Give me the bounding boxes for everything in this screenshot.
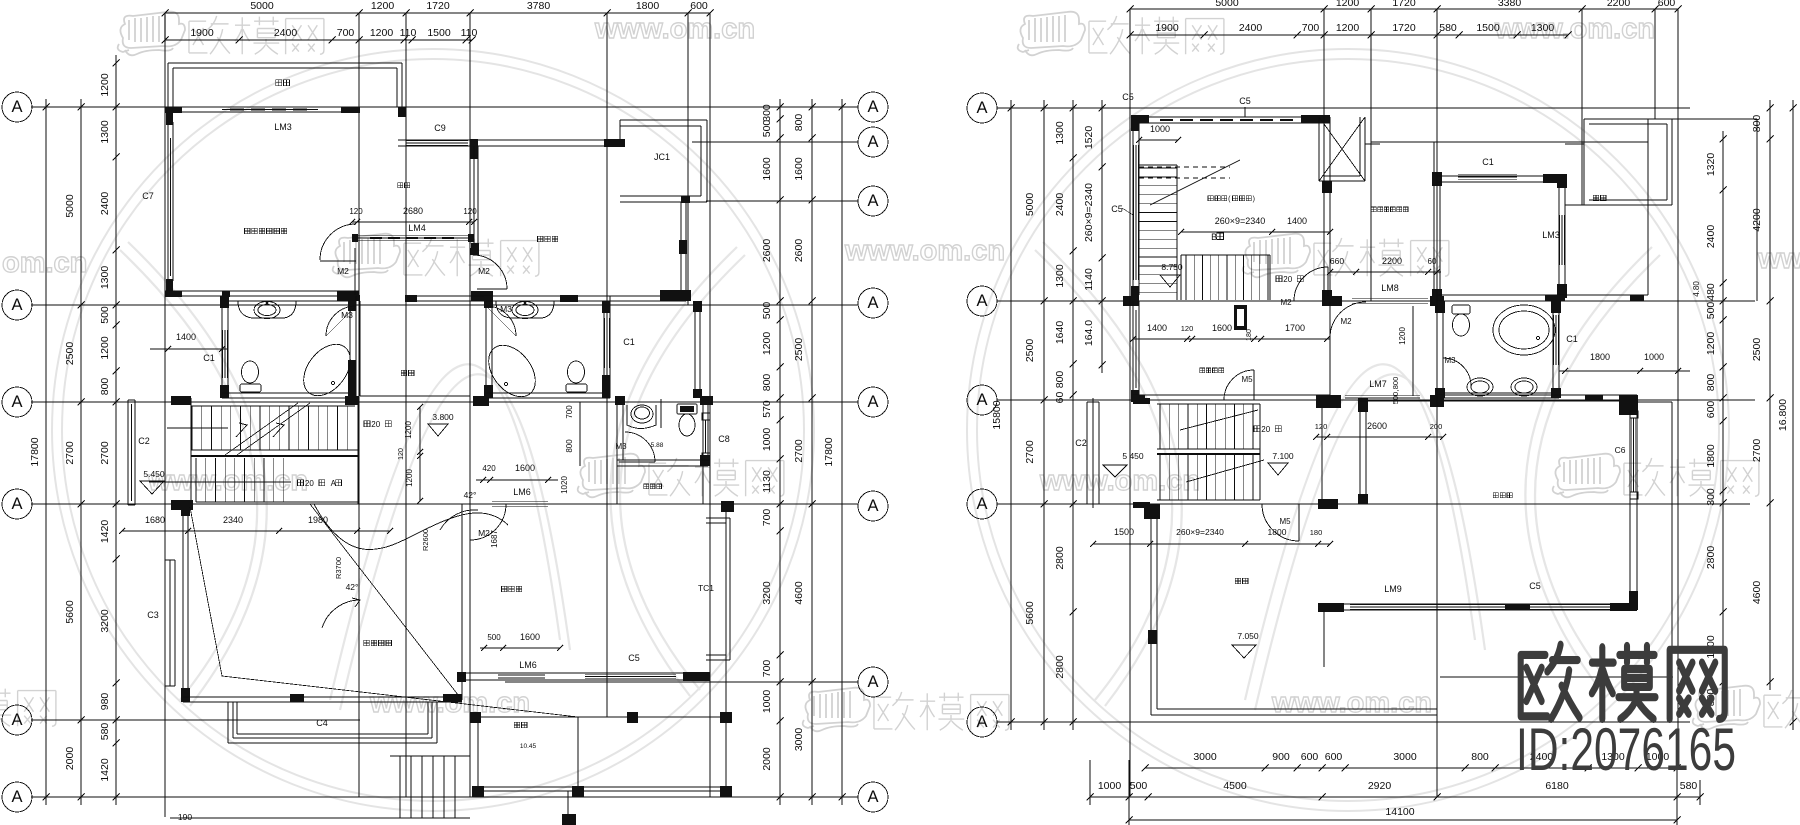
stair cut diagonal — [225, 403, 310, 455]
书房及休闲间 — [1371, 207, 1408, 212]
elevator — [1318, 117, 1320, 181]
giant logo curves left — [120, 242, 745, 710]
mid wall y301 black — [1123, 296, 1139, 306]
svg-text:C8: C8 — [718, 434, 730, 444]
interior line — [461, 504, 463, 700]
right wall + C6 window — [1629, 401, 1631, 610]
svg-text:1300: 1300 — [1054, 264, 1066, 288]
svg-text:800: 800 — [99, 378, 111, 396]
svg-text:2700: 2700 — [64, 441, 76, 465]
svg-text:A: A — [11, 98, 22, 116]
terrace outline right — [1637, 401, 1672, 403]
svg-text:C5: C5 — [1529, 581, 1541, 591]
svg-text:120: 120 — [1181, 324, 1194, 333]
svg-text:900: 900 — [1272, 751, 1290, 763]
svg-text:A: A — [11, 711, 22, 729]
svg-text:1320: 1320 — [1705, 153, 1717, 177]
wc divider — [660, 399, 662, 428]
svg-text:700: 700 — [1302, 22, 1320, 34]
svg-text:500: 500 — [1705, 302, 1717, 320]
porch 阳台 — [514, 722, 527, 727]
svg-text:2600: 2600 — [1367, 421, 1387, 431]
svg-text:3380: 3380 — [1498, 0, 1522, 9]
svg-text:5000: 5000 — [250, 0, 274, 12]
svg-text:180: 180 — [1246, 329, 1253, 341]
svg-text:1420: 1420 — [99, 520, 111, 544]
svg-text:2000: 2000 — [761, 747, 773, 771]
svg-text:1640: 1640 — [1054, 321, 1066, 345]
svg-text:2500: 2500 — [64, 342, 76, 366]
stair room labels — [1208, 196, 1255, 203]
svg-text:A: A — [11, 393, 22, 411]
corridor upper walls — [354, 248, 356, 295]
svg-text:M2: M2 — [1280, 298, 1292, 307]
svg-text:A: A — [976, 292, 987, 310]
svg-text:3200: 3200 — [99, 609, 111, 633]
stairs lower: two flights — [1157, 403, 1260, 405]
svg-text:C5: C5 — [1122, 92, 1134, 102]
svg-text:1200: 1200 — [1398, 327, 1407, 345]
svg-text:5000: 5000 — [1024, 193, 1036, 217]
svg-text:C6: C6 — [1615, 445, 1626, 455]
stair room right wall — [1323, 181, 1325, 301]
svg-text:580: 580 — [99, 723, 111, 741]
kids room bottom wall — [405, 295, 686, 297]
svg-text:600: 600 — [1325, 751, 1343, 763]
svg-text:1130: 1130 — [761, 470, 773, 493]
svg-text:1500: 1500 — [1476, 22, 1500, 34]
svg-text:2340: 2340 — [223, 515, 243, 525]
giant logo curves right — [1035, 242, 1660, 710]
svg-text:1200: 1200 — [761, 332, 773, 356]
svg-text:2700: 2700 — [1024, 440, 1036, 464]
svg-text:1700: 1700 — [1285, 323, 1305, 333]
balcony top 露台 — [167, 63, 169, 107]
svg-text:0: 0 — [376, 420, 381, 429]
left bathroom — [221, 296, 223, 398]
svg-text:2600: 2600 — [761, 239, 773, 263]
top dimension row 1 — [165, 12, 710, 14]
svg-text:5 450: 5 450 — [1122, 451, 1144, 461]
svg-text:700: 700 — [761, 660, 773, 678]
extended outline — [1672, 118, 1757, 120]
svg-text:1200: 1200 — [371, 0, 395, 12]
svg-text:570: 570 — [761, 400, 773, 418]
corridor door M2 left — [320, 224, 356, 260]
svg-text:800: 800 — [565, 439, 574, 453]
svg-text:1687: 1687 — [490, 530, 499, 548]
wc toilet — [677, 404, 697, 414]
svg-text:2800: 2800 — [1705, 546, 1717, 570]
svg-text:2920: 2920 — [1368, 780, 1392, 792]
svg-text:190: 190 — [178, 812, 192, 822]
right chain D — [779, 99, 781, 805]
svg-text:C3: C3 — [147, 610, 159, 620]
svg-text:1500: 1500 — [1114, 527, 1134, 537]
stair B upper flight — [1139, 164, 1177, 166]
bottom wall + LM9 C5 — [1318, 603, 1637, 605]
svg-text:260×9=2340: 260×9=2340 — [1215, 216, 1266, 226]
lower big room 餐厅上空 — [182, 504, 184, 702]
svg-text:1600: 1600 — [793, 157, 805, 181]
svg-text:2400: 2400 — [1705, 225, 1717, 249]
grid rows — [31, 106, 858, 108]
dims below stairs — [1093, 543, 1330, 545]
stair B lower flight — [1180, 255, 1182, 300]
svg-text:1400: 1400 — [176, 332, 196, 342]
svg-text:A: A — [867, 788, 878, 806]
svg-text:M2: M2 — [337, 266, 349, 276]
svg-text:17800: 17800 — [823, 437, 835, 466]
C4 bay window — [227, 702, 229, 743]
svg-text:1020: 1020 — [560, 476, 569, 494]
window LM4 — [357, 235, 468, 237]
rp right chain K — [1792, 100, 1794, 730]
svg-text:A: A — [867, 294, 878, 312]
dim row 1680 2340 1980 — [122, 530, 390, 532]
left chain A — [45, 99, 47, 805]
svg-text:C7: C7 — [142, 191, 154, 201]
svg-text:C1: C1 — [1566, 334, 1578, 344]
svg-text:1800: 1800 — [1268, 527, 1287, 537]
wc door — [625, 432, 655, 462]
svg-text:LM3: LM3 — [1542, 230, 1560, 240]
left bath tub — [294, 335, 360, 404]
svg-text:2400: 2400 — [99, 192, 111, 216]
svg-text:2200: 2200 — [1382, 256, 1402, 266]
left chain C — [115, 55, 117, 805]
svg-text:M2: M2 — [478, 528, 490, 538]
stair arrows — [167, 427, 228, 429]
svg-text:A: A — [976, 713, 987, 731]
bathroom right plan — [1436, 301, 1438, 398]
dim 1000 — [1139, 139, 1178, 141]
svg-text:700: 700 — [761, 509, 773, 527]
svg-text:1400: 1400 — [1287, 216, 1307, 226]
corridor walls — [359, 301, 361, 396]
svg-text:120: 120 — [349, 207, 363, 216]
svg-text:42°: 42° — [464, 490, 477, 500]
tub — [1493, 305, 1555, 355]
svg-text:980: 980 — [99, 693, 111, 711]
svg-text:1520: 1520 — [1083, 126, 1095, 150]
svg-text:A: A — [976, 391, 987, 409]
svg-text:3000: 3000 — [793, 728, 805, 752]
svg-text:2400: 2400 — [274, 27, 298, 39]
svg-text:LM9: LM9 — [1384, 584, 1402, 594]
svg-text:C2: C2 — [138, 436, 150, 446]
sinks — [1467, 378, 1493, 396]
svg-text:1600: 1600 — [1212, 323, 1232, 333]
svg-text:2000: 2000 — [64, 747, 76, 771]
svg-text:2800: 2800 — [1054, 546, 1066, 570]
svg-text:C5: C5 — [1239, 96, 1251, 106]
svg-text:C2: C2 — [1075, 438, 1087, 448]
svg-text:TC1: TC1 — [698, 583, 714, 593]
svg-text:1200: 1200 — [370, 27, 394, 39]
stair room top wall + C5 — [1133, 116, 1330, 118]
svg-text:1900: 1900 — [1155, 22, 1179, 34]
svg-text:700: 700 — [565, 405, 574, 419]
dims 120 2600 200 — [1316, 436, 1443, 438]
C5 bottom window — [458, 672, 710, 674]
svg-text:420: 420 — [482, 464, 496, 473]
svg-text:1800: 1800 — [636, 0, 660, 12]
stair hall bottom wall — [171, 396, 191, 405]
svg-text:600: 600 — [690, 0, 708, 12]
right bath door M3 — [486, 306, 516, 336]
svg-text:500: 500 — [487, 633, 501, 642]
rp right chain I — [1722, 131, 1724, 721]
grid columns — [164, 13, 166, 817]
svg-text:260×9=2340: 260×9=2340 — [1083, 183, 1095, 242]
svg-text:5000: 5000 — [1215, 0, 1239, 9]
svg-text:1720: 1720 — [426, 0, 450, 12]
生活阳台 — [1200, 368, 1224, 373]
bottom wall + C4 bay — [183, 696, 462, 698]
svg-text:1900: 1900 — [190, 27, 214, 39]
dim 500 1600 row — [480, 647, 560, 649]
svg-text:16.800: 16.800 — [1777, 399, 1789, 431]
svg-text:1300: 1300 — [99, 120, 111, 144]
black door jamb — [1234, 305, 1247, 330]
svg-text:2500: 2500 — [793, 338, 805, 362]
svg-text:M2: M2 — [478, 266, 490, 276]
svg-text:60: 60 — [1428, 257, 1437, 266]
svg-text:A: A — [867, 673, 878, 691]
svg-text:A: A — [976, 495, 987, 513]
dims 1800 1000 — [1559, 370, 1690, 372]
svg-text:1200: 1200 — [1705, 332, 1717, 356]
bedroom right wall + LM3 — [1558, 174, 1560, 298]
svg-text:4600: 4600 — [1751, 581, 1763, 605]
svg-text:120: 120 — [1315, 422, 1328, 431]
svg-text:120: 120 — [463, 207, 477, 216]
kids room top wall + C9 — [398, 139, 625, 141]
svg-text:1000: 1000 — [1098, 780, 1122, 792]
stair hall C2 window — [127, 400, 129, 505]
svg-text:M3: M3 — [341, 310, 353, 320]
balcony top right — [1583, 119, 1585, 144]
bedroom top wall + C1 — [1437, 175, 1565, 177]
svg-text:500: 500 — [761, 120, 773, 138]
svg-text:260×9=2340: 260×9=2340 — [1176, 527, 1224, 537]
svg-text:1200: 1200 — [405, 469, 414, 487]
svg-text:M5: M5 — [1279, 517, 1291, 526]
svg-text:2200: 2200 — [1607, 0, 1631, 9]
svg-text:2700: 2700 — [793, 439, 805, 463]
wc sink — [627, 405, 656, 429]
svg-text:2700: 2700 — [99, 441, 111, 465]
svg-text:1600: 1600 — [515, 463, 535, 473]
right chain E — [811, 99, 813, 805]
dim 1400 — [150, 348, 228, 350]
svg-text:500: 500 — [761, 302, 773, 320]
svg-text:15800: 15800 — [991, 400, 1003, 429]
svg-text:2400: 2400 — [1239, 22, 1263, 34]
svg-text:800: 800 — [1705, 374, 1717, 392]
svg-text:10.45: 10.45 — [520, 743, 537, 750]
svg-text:3000: 3000 — [1193, 751, 1217, 763]
left bath sink — [238, 301, 296, 318]
svg-text:1300: 1300 — [99, 266, 111, 290]
svg-text:580: 580 — [1439, 22, 1457, 34]
rp left chain 15800 — [1010, 100, 1012, 730]
svg-text:120: 120 — [398, 448, 405, 460]
svg-text:300: 300 — [1705, 488, 1717, 506]
svg-text:17800: 17800 — [29, 437, 41, 466]
svg-text:LM6: LM6 — [519, 660, 537, 670]
svg-text:1720: 1720 — [1392, 22, 1416, 34]
svg-text:1300: 1300 — [1054, 121, 1066, 145]
wm row4 — [0, 689, 56, 727]
svg-text:4600: 4600 — [793, 581, 805, 605]
svg-text:2700: 2700 — [1751, 439, 1763, 463]
svg-text:A: A — [11, 788, 22, 806]
dims 660 2200 row — [1330, 271, 1441, 273]
svg-text:LM8: LM8 — [1381, 283, 1399, 293]
svg-text:LM7: LM7 — [1369, 379, 1387, 389]
svg-text:1000: 1000 — [761, 690, 773, 714]
svg-text:1200: 1200 — [99, 336, 111, 360]
svg-text:164.0: 164.0 — [1083, 320, 1095, 346]
svg-text:www: www — [1757, 243, 1800, 275]
svg-text:1720: 1720 — [1392, 0, 1416, 9]
svg-text:60: 60 — [1054, 392, 1066, 404]
svg-text:5000: 5000 — [64, 194, 76, 218]
grid circles A right — [858, 92, 888, 122]
stair room left wall + C5 window — [1132, 117, 1134, 301]
left wall lower + window — [1132, 301, 1134, 400]
dim 420 1600 row — [476, 479, 558, 481]
svg-text:C5: C5 — [628, 653, 640, 663]
wall y400 — [1133, 394, 1330, 396]
svg-text:1200: 1200 — [1336, 22, 1360, 34]
right bath sink — [496, 301, 554, 318]
svg-text:C1: C1 — [1482, 157, 1494, 167]
svg-text:4.80: 4.80 — [1692, 281, 1701, 297]
svg-text:200: 200 — [1430, 422, 1443, 431]
svg-text:C9: C9 — [434, 123, 446, 133]
misc long verticals — [1323, 9, 1325, 301]
toilet — [1452, 305, 1470, 314]
top dim row2 — [1130, 34, 1568, 36]
svg-text:1500: 1500 — [427, 27, 451, 39]
svg-text:1200: 1200 — [99, 73, 111, 97]
svg-text:0: 0 — [309, 479, 314, 488]
bottom dim row C — [1129, 819, 1677, 821]
door M3 — [1443, 358, 1471, 386]
main bedroom 主人房 — [1359, 400, 1361, 504]
svg-text:M3: M3 — [615, 442, 627, 451]
svg-text:300: 300 — [761, 104, 773, 122]
svg-text:LM6: LM6 — [513, 487, 531, 497]
wm row3 — [147, 465, 308, 497]
svg-text:600: 600 — [1658, 0, 1676, 9]
svg-text:1680: 1680 — [145, 515, 165, 525]
svg-text:M2: M2 — [1340, 317, 1352, 326]
svg-text:1140: 1140 — [1083, 268, 1095, 291]
svg-text:800: 800 — [761, 374, 773, 392]
svg-text:3.800: 3.800 — [432, 412, 454, 422]
right bath tub — [479, 336, 545, 405]
left bath toilet — [240, 384, 261, 392]
right boundary wall 303-398 — [694, 305, 696, 398]
svg-text:M3: M3 — [1444, 356, 1456, 365]
svg-text:0: 0 — [1266, 425, 1271, 434]
grid rows right plan — [997, 107, 1690, 109]
svg-text:A: A — [867, 98, 878, 116]
svg-text:2600: 2600 — [793, 239, 805, 263]
svg-text:3000: 3000 — [1393, 751, 1417, 763]
svg-text:180: 180 — [1310, 528, 1323, 537]
svg-text:8.750: 8.750 — [1161, 262, 1183, 272]
svg-text:500: 500 — [1130, 780, 1148, 792]
top dim row1 — [1130, 8, 1678, 10]
svg-text:1200: 1200 — [404, 421, 413, 439]
svg-text:A: A — [976, 99, 987, 117]
svg-text:500: 500 — [99, 306, 111, 324]
living room top wall with window LM3 — [165, 111, 359, 113]
svg-text:JC1: JC1 — [654, 152, 670, 162]
svg-text:M3: M3 — [500, 304, 512, 314]
svg-text:A: A — [867, 192, 878, 210]
door M2 stair room — [1294, 267, 1328, 301]
svg-text:4500: 4500 — [1223, 780, 1247, 792]
svg-text:2400: 2400 — [1054, 193, 1066, 217]
svg-text:3200: 3200 — [761, 581, 773, 605]
svg-text:A: A — [867, 497, 878, 515]
room diagonals — [190, 507, 578, 717]
grid circles A — [967, 93, 997, 123]
right chain F — [841, 99, 843, 805]
stair right dims — [419, 407, 421, 501]
svg-text:B: B — [1211, 232, 1217, 242]
svg-text:14100: 14100 — [1385, 806, 1414, 818]
svg-text:2500: 2500 — [1751, 338, 1763, 362]
svg-text:C4: C4 — [316, 718, 328, 728]
svg-text:600: 600 — [1301, 751, 1319, 763]
svg-text:LM4: LM4 — [408, 223, 426, 233]
svg-text:7.050: 7.050 — [1237, 631, 1259, 641]
lower stair hall right plan — [1086, 402, 1088, 504]
svg-text:1600: 1600 — [761, 157, 773, 181]
right bath toilet — [566, 384, 587, 392]
svg-text:C1: C1 — [203, 353, 215, 363]
svg-text:1800: 1800 — [1705, 444, 1717, 468]
svg-text:M5: M5 — [1241, 375, 1253, 384]
svg-text:ID:2076165: ID:2076165 — [1516, 716, 1736, 783]
corridor dim 120 2680 120 — [352, 221, 474, 223]
svg-text:2800: 2800 — [1054, 655, 1066, 679]
bottom dim row B — [1090, 796, 1700, 798]
svg-text:A: A — [11, 495, 22, 513]
svg-text:1600: 1600 — [520, 632, 540, 642]
rp right chain J — [1769, 100, 1771, 690]
svg-text:7.100: 7.100 — [1272, 451, 1294, 461]
M2 door small room — [469, 504, 471, 540]
bedroom bottom wall — [1437, 294, 1648, 296]
kids room right wall — [680, 202, 682, 301]
svg-text:A: A — [11, 296, 22, 314]
rp left chain C — [1072, 100, 1074, 730]
svg-text:5.450: 5.450 — [143, 469, 165, 479]
living room left wall, window C7 — [167, 107, 169, 296]
living room label — [244, 228, 286, 233]
entry steps — [390, 755, 470, 757]
svg-text:1000: 1000 — [761, 428, 773, 452]
wm row1 — [118, 12, 324, 56]
